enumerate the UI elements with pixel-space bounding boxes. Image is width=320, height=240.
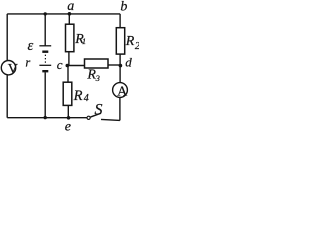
ammeter A1 circle [113, 83, 128, 98]
wire R1 to c [68, 52, 70, 66]
svg-text:a: a [67, 0, 74, 14]
wire c to R3 [67, 65, 84, 67]
junction dot battery top [44, 12, 47, 15]
resistor R4 box [63, 82, 72, 105]
node a dot [68, 12, 72, 16]
svg-text:e: e [65, 120, 71, 133]
svg-text:3: 3 [95, 73, 100, 83]
svg-text:V: V [8, 62, 18, 77]
wire bottom rail [7, 117, 87, 119]
battery dotted cells link [44, 55, 46, 64]
junction dot battery bottom [44, 116, 47, 119]
svg-text:1: 1 [82, 36, 86, 46]
battery cell plate short thick 2 [42, 70, 48, 72]
resistor R1 box [66, 24, 74, 52]
wire left rail bottom [6, 75, 8, 118]
svg-text:S: S [95, 101, 103, 118]
svg-text:c: c [57, 57, 63, 72]
wire R2 to d to ammeter [119, 54, 121, 83]
svg-text:r: r [25, 56, 30, 70]
node e dot [67, 116, 71, 120]
battery cell plate long 2 [39, 64, 51, 66]
svg-text:4: 4 [84, 93, 89, 104]
resistor R2 box [116, 28, 124, 54]
svg-text:ε: ε [28, 38, 34, 54]
wire c down to R4 [67, 66, 69, 83]
wire battery bottom [44, 72, 46, 117]
wire top rail a-b [7, 13, 120, 15]
svg-text:R: R [73, 88, 83, 104]
node d dot [119, 64, 123, 68]
switch S pivot circle [87, 116, 90, 119]
wire b down to R2 [119, 14, 121, 28]
wire a down to R1 [68, 14, 70, 24]
resistor R3 box [85, 59, 109, 68]
battery cell plate short thick 1 [42, 51, 48, 53]
wire ammeter bottom [119, 97, 121, 120]
wire bottom right to switch [101, 119, 120, 120]
svg-text:2: 2 [135, 41, 139, 52]
battery cell plate long 1 [39, 45, 51, 47]
svg-text:b: b [120, 0, 127, 15]
wire R4 to e [67, 105, 69, 117]
wire left rail top [6, 14, 8, 61]
node c dot [66, 64, 70, 68]
wire battery top [44, 14, 46, 46]
svg-text:R: R [125, 34, 135, 49]
svg-text:d: d [125, 55, 132, 70]
voltmeter V1 circle [1, 60, 15, 74]
svg-text:A: A [117, 84, 128, 99]
switch S lever [90, 113, 101, 117]
wire R3 to d [108, 64, 120, 66]
